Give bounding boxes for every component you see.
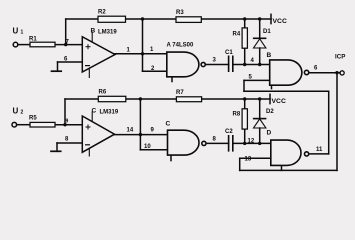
diode D2	[253, 119, 267, 128]
wire gate A bottom stub	[171, 77, 173, 82]
resistor R3	[176, 17, 201, 23]
ground op-amp C	[56, 143, 58, 151]
wire gate B bottom stub	[271, 85, 273, 88]
svg-text:5: 5	[249, 75, 253, 81]
wire to gate C input 10	[140, 149, 167, 151]
junction ICP	[335, 71, 338, 74]
svg-text:D1: D1	[263, 29, 271, 35]
svg-text:11: 11	[316, 147, 323, 153]
wire cross coupling from gate D output	[244, 90, 329, 92]
wire gate C bottom stub	[170, 155, 172, 161]
wire D2 cathode to rail	[259, 99, 261, 119]
junction rail R2 R3	[141, 17, 144, 20]
junction rail R4	[243, 17, 246, 20]
terminal U1	[13, 42, 18, 47]
junction lower rail D2	[258, 97, 261, 100]
NAND gate A 74LS00	[167, 52, 205, 77]
power VCC tick bottom	[269, 94, 271, 103]
capacitor C2	[229, 135, 233, 152]
wire op-amp B minus input	[58, 61, 83, 63]
wire vertical rail to gate A inputs	[142, 19, 144, 71]
wire gate D output pin 11	[309, 153, 329, 155]
resistor R5	[30, 122, 55, 127]
terminal U2	[12, 122, 17, 127]
capacitor C1	[229, 56, 233, 73]
junction lower rail R8	[243, 97, 246, 100]
svg-text:B: B	[267, 52, 272, 59]
wire vertical rail to gate C inputs	[139, 99, 141, 150]
wire D1 cathode to rail	[259, 19, 261, 38]
svg-text:C: C	[166, 121, 171, 128]
wire op-amp B output to gate A input 1	[115, 53, 167, 55]
svg-text:6: 6	[314, 66, 318, 72]
svg-text:U: U	[13, 26, 19, 35]
op-amp B LM319	[82, 32, 115, 79]
resistor R6	[98, 96, 126, 101]
resistor R8	[242, 109, 247, 129]
wire gate D output rise	[328, 91, 330, 154]
svg-text:R2: R2	[98, 10, 106, 16]
svg-text:R5: R5	[29, 116, 37, 122]
diode D1	[253, 38, 267, 48]
svg-text:ICP: ICP	[335, 54, 345, 61]
junction node B D1	[258, 63, 261, 66]
svg-text:13: 13	[245, 157, 252, 163]
NAND gate D	[271, 140, 309, 165]
junction node at plus input op-amp C	[63, 123, 66, 126]
wire D1 anode to node B	[259, 48, 261, 65]
svg-text:R6: R6	[99, 90, 107, 96]
wire gate B output pin 6 to ICP	[309, 72, 340, 74]
wire U1 to R1	[18, 44, 30, 46]
junction op-amp B output	[141, 52, 144, 55]
resistor R1	[30, 42, 55, 47]
wire R1 to op-amp B plus input	[55, 44, 82, 46]
wire bottom feedback	[240, 169, 337, 171]
wire feedback branch vertical at plus input	[65, 19, 67, 45]
svg-text:B: B	[91, 28, 96, 35]
junction node D R8	[243, 142, 246, 145]
svg-text:4: 4	[251, 58, 255, 64]
NAND gate B	[270, 60, 309, 85]
svg-text:1: 1	[150, 47, 154, 53]
wire gate B input 5	[244, 79, 270, 81]
svg-text:C1: C1	[225, 50, 233, 56]
svg-text:D2: D2	[266, 109, 274, 115]
wire gate D input 13	[240, 157, 271, 159]
ground op-amp B	[57, 62, 59, 71]
junction node at plus input op-amp B	[64, 43, 67, 46]
wire gate D bottom stub	[281, 165, 283, 170]
wire to gate A input 2	[143, 70, 167, 72]
resistor R7	[176, 97, 201, 102]
junction rail D1	[258, 17, 261, 20]
svg-text:2: 2	[21, 110, 24, 116]
wire ICP feedback down	[336, 73, 338, 171]
wire op-amp C output pin 14 to gate C input 9	[115, 134, 168, 136]
svg-text:LM319: LM319	[100, 110, 119, 116]
svg-text:8: 8	[65, 137, 69, 143]
wire gate A output pin 3 to C1	[205, 64, 228, 66]
svg-text:LM319: LM319	[98, 30, 117, 36]
svg-text:R8: R8	[233, 112, 241, 118]
wire R8 bottom to node D	[244, 129, 246, 143]
wire op-amp C minus input	[57, 142, 82, 144]
wire branch vertical at op-amp C plus input	[64, 99, 66, 125]
terminal ICP	[340, 71, 344, 75]
junction op-amp C output	[139, 133, 142, 136]
svg-text:3: 3	[213, 58, 217, 64]
resistor R4	[242, 28, 247, 48]
svg-text:C: C	[92, 108, 97, 115]
wire U2 to R5	[17, 124, 30, 126]
svg-text:VCC: VCC	[272, 98, 286, 105]
svg-text:14: 14	[127, 128, 134, 134]
wire feedback rise to gate D input 13	[239, 158, 241, 170]
svg-text:A 74LS00: A 74LS00	[167, 43, 194, 49]
NAND gate C	[168, 130, 206, 155]
svg-text:9: 9	[66, 119, 69, 125]
wire lower rail	[65, 98, 270, 100]
power VCC tick top	[270, 14, 272, 23]
wire R4 bottom to node B	[244, 48, 246, 64]
wire gate C output pin 8 to C2	[206, 142, 229, 144]
wire R5 to op-amp C plus input	[55, 124, 82, 126]
wire top rail	[66, 18, 271, 20]
svg-text:R7: R7	[176, 90, 184, 96]
svg-text:8: 8	[213, 137, 217, 143]
wire R8 top	[244, 99, 246, 109]
wire D2 anode to node D	[259, 128, 261, 143]
junction node D D2	[258, 142, 261, 145]
junction lower rail vertical	[139, 97, 142, 100]
svg-text:1: 1	[127, 48, 131, 54]
svg-text:R4: R4	[233, 32, 241, 38]
svg-text:VCC: VCC	[273, 18, 287, 25]
svg-text:1: 1	[21, 30, 24, 36]
svg-text:R1: R1	[29, 37, 37, 43]
svg-text:U: U	[13, 106, 19, 115]
svg-text:D: D	[267, 130, 272, 137]
wire R4 top	[244, 19, 246, 28]
wire input5 vertical	[243, 80, 245, 91]
wire C1 to node B gate B input 4	[233, 64, 270, 66]
svg-text:10: 10	[144, 144, 151, 150]
svg-text:9: 9	[151, 128, 155, 134]
svg-text:C2: C2	[225, 129, 233, 135]
op-amp C LM319	[82, 112, 114, 157]
junction node B R4	[243, 63, 246, 66]
wire C2 to node D gate D input 12	[233, 142, 271, 144]
resistor R2	[98, 16, 126, 22]
svg-text:12: 12	[248, 139, 255, 145]
svg-text:R3: R3	[176, 10, 184, 16]
